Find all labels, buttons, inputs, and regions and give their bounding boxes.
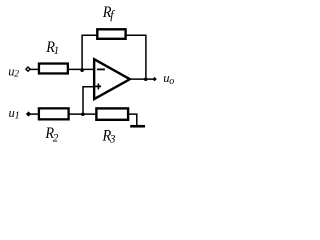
node C (junction of R2, R3, non-inverting input) [81,112,85,116]
wire R2 to R3 [69,113,96,115]
node u2 (input terminal, open diamond) [26,67,30,71]
svg-text:R3: R3 [102,128,116,146]
node uo (output terminal, filled diamond) [152,77,156,81]
wire u2 to R1 [30,68,40,70]
ground [130,125,145,128]
svg-text:uo: uo [163,71,174,87]
wire op-amp output to terminal [131,78,153,80]
node u1 (input terminal, filled diamond) [26,112,30,116]
svg-text:R2: R2 [44,126,58,145]
svg-text:u2: u2 [8,64,19,79]
node A (junction of R1, Rf, inverting input) [80,68,84,72]
wire non-inverting input to node C [83,87,95,115]
svg-text:Rf: Rf [102,5,115,22]
wire feedback up from node A to Rf [82,35,97,70]
wire Rf to output node [126,35,146,79]
wire R3 to ground [129,114,137,125]
wire R1 to op-amp inverting input [69,68,95,70]
svg-text:R1: R1 [45,40,59,58]
resistor Rf [97,29,125,39]
node B (output junction dot) [144,77,148,81]
op-amp U1 [94,59,130,99]
resistor R3 [96,108,128,119]
resistor R1 [39,64,68,74]
wire u1 to R2 [31,113,40,115]
svg-text:u1: u1 [9,106,20,121]
resistor R2 [39,108,69,119]
